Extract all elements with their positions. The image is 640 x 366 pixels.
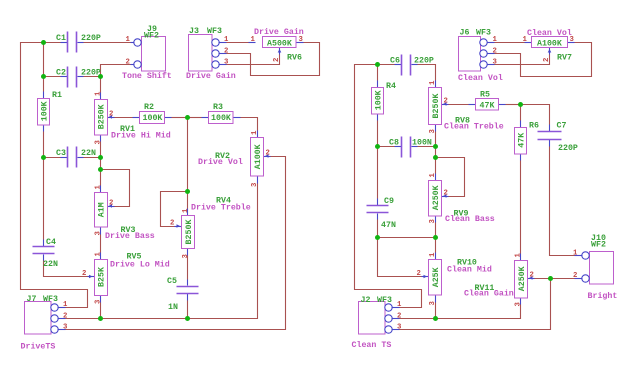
junction C5 bottom on rail	[185, 316, 190, 321]
junction C8 right node	[433, 144, 438, 149]
svg-text:2: 2	[543, 58, 551, 62]
connector J7 WF3 DriveTS	[25, 295, 69, 334]
wire R3 right to RV2 pin1	[241, 118, 258, 131]
svg-text:A100K: A100K	[537, 40, 562, 49]
capacitor C7 220P	[538, 122, 578, 154]
wire center node down to RV4 node	[187, 118, 189, 192]
svg-text:Drive Vol: Drive Vol	[198, 157, 243, 167]
svg-text:1: 1	[429, 252, 437, 257]
svg-text:C5: C5	[167, 277, 177, 286]
wire input rail right from C6 row down to J2 pin1 hook	[355, 65, 422, 308]
junction C6 left node	[375, 62, 380, 67]
svg-text:R6: R6	[529, 122, 539, 131]
wire RV3 wiper loop	[101, 170, 130, 207]
svg-text:1N: 1N	[168, 303, 178, 312]
svg-text:3: 3	[493, 59, 498, 67]
wire C3 node to RV3 node	[100, 158, 102, 170]
resistor R4 100K	[372, 81, 396, 121]
capacitor C3 22N	[56, 147, 96, 168]
resistor R6 47K	[515, 121, 539, 161]
wire RV3 node to RV3 pin1	[100, 170, 102, 186]
svg-text:WF3: WF3	[207, 27, 222, 36]
svg-text:1: 1	[515, 253, 523, 258]
svg-text:100K: 100K	[41, 101, 50, 121]
svg-text:1: 1	[251, 36, 256, 44]
svg-text:3: 3	[95, 231, 103, 236]
capacitor C2 220P	[56, 67, 101, 88]
svg-text:2: 2	[417, 270, 421, 278]
svg-text:B250K: B250K	[185, 220, 194, 245]
svg-text:100K: 100K	[375, 90, 384, 110]
svg-text:A250K: A250K	[432, 185, 441, 210]
svg-text:WF2: WF2	[591, 241, 606, 250]
wire C6 left lead	[378, 64, 395, 66]
svg-text:2: 2	[126, 59, 130, 67]
wire R5 right to R6 node	[506, 104, 521, 106]
junction C3 row at rail	[41, 155, 46, 160]
svg-text:C1: C1	[56, 34, 66, 43]
wire mid rail C9 to RV10	[378, 237, 436, 239]
svg-text:1: 1	[224, 36, 229, 44]
resistor R3 100K	[202, 103, 241, 124]
svg-text:R5: R5	[480, 91, 490, 100]
svg-text:3: 3	[95, 140, 103, 145]
svg-text:2: 2	[397, 312, 401, 320]
svg-text:1: 1	[493, 36, 498, 44]
svg-text:2: 2	[266, 150, 270, 158]
svg-text:3: 3	[299, 36, 304, 44]
wire input rail left from C1 row down to J7 pin1 hook	[21, 43, 88, 308]
svg-text:R2: R2	[144, 103, 154, 112]
connector J2 WF3 Clean TS	[359, 296, 403, 334]
potentiometer RV3 A1M Drive Bass	[95, 185, 136, 236]
svg-text:220P: 220P	[558, 144, 578, 153]
capacitor C1 220P	[56, 32, 101, 53]
wire J7 pin3 to RV2 pin2	[66, 157, 286, 330]
svg-text:3: 3	[397, 324, 402, 332]
svg-text:WF3: WF3	[377, 296, 392, 305]
svg-text:1: 1	[397, 301, 402, 309]
wire center node to R3 left	[188, 117, 202, 119]
svg-text:WF2: WF2	[144, 32, 159, 41]
svg-text:C6: C6	[390, 57, 400, 66]
svg-text:2: 2	[170, 220, 174, 228]
wire node to RV1 pin1	[100, 77, 102, 93]
svg-text:A500K: A500K	[267, 40, 292, 49]
svg-text:C9: C9	[384, 197, 394, 206]
junction RV3 top node	[98, 167, 103, 172]
svg-text:2: 2	[530, 272, 534, 280]
wire mid node to RV10 pin1	[435, 238, 437, 253]
wire C2 left lead	[44, 76, 61, 78]
wire J3 pin1 to RV6 pin1	[227, 42, 249, 44]
wire R6 node down to R6 top	[520, 105, 522, 121]
wire C9 bottom to mid node	[377, 220, 379, 238]
svg-text:Clean Vol: Clean Vol	[527, 28, 572, 38]
junction RV4 top node	[185, 189, 190, 194]
svg-text:RV7: RV7	[557, 54, 572, 63]
wire C3 dot down to C4 top	[43, 158, 45, 240]
wire RV3 pin3 to RV5 pin1	[100, 235, 102, 253]
junction C9 bottom node	[375, 235, 380, 240]
potentiometer RV4 B250K Drive Treble	[170, 197, 231, 259]
svg-text:1: 1	[429, 80, 437, 85]
svg-text:B25K: B25K	[97, 267, 106, 287]
svg-text:C4: C4	[46, 238, 56, 247]
capacitor C9 47N	[367, 197, 396, 230]
svg-text:Drive Lo Mid: Drive Lo Mid	[110, 260, 170, 270]
svg-text:C2: C2	[56, 69, 66, 78]
svg-text:3: 3	[224, 59, 229, 67]
svg-text:J2: J2	[361, 296, 371, 305]
svg-text:1: 1	[126, 36, 131, 44]
wire RV1 pin2 to R2	[115, 117, 133, 119]
wire RV4 wiper loop	[161, 192, 188, 227]
svg-text:100K: 100K	[211, 114, 231, 123]
svg-text:Drive Treble: Drive Treble	[191, 203, 251, 213]
wire RV5 pin3 to bottom rail	[100, 303, 102, 319]
wire J3 pin2 to RV6 pin3 loop	[227, 43, 320, 76]
wire C1 right lead to J9 pin1	[84, 42, 131, 44]
wire R6 bottom to RV11 pin1	[520, 161, 522, 254]
connector J10 WF2 Bright	[573, 234, 614, 284]
junction RV10 top node	[433, 235, 438, 240]
potentiometer RV9 A250K Clean Bass	[429, 173, 469, 224]
wire RV9 node to RV9 pin1	[435, 158, 437, 174]
resistor R5 47K	[469, 91, 506, 111]
wire C1 left lead	[44, 42, 61, 44]
junction RV5 pin3 on rail	[98, 316, 103, 321]
junction bright node	[548, 276, 553, 281]
svg-text:220P: 220P	[81, 34, 101, 43]
junction C8 left node	[375, 144, 380, 149]
wire mid node down to RV10 pin2	[378, 238, 422, 277]
svg-text:3: 3	[251, 182, 259, 187]
svg-text:1: 1	[95, 91, 103, 96]
svg-text:WF3: WF3	[43, 295, 58, 304]
svg-text:2: 2	[493, 47, 497, 55]
wire C8 node to RV9 node	[435, 147, 437, 158]
capacitor C6 220P	[390, 55, 434, 76]
svg-text:1: 1	[63, 301, 68, 309]
svg-text:100N: 100N	[412, 139, 432, 148]
wire C3 left lead	[44, 157, 61, 159]
wire C8 left lead	[378, 146, 395, 148]
svg-text:3: 3	[429, 301, 437, 306]
capacitor C8 100N	[389, 137, 432, 158]
svg-text:A250K: A250K	[518, 266, 527, 291]
svg-text:A100K: A100K	[254, 144, 263, 169]
potentiometer RV6 A500K Drive Gain	[249, 36, 304, 63]
wire RV9 wiper loop	[436, 158, 465, 197]
svg-text:Clean Bass: Clean Bass	[445, 214, 495, 224]
svg-text:22N: 22N	[43, 260, 58, 269]
potentiometer RV5 B25K Drive Lo Mid	[82, 252, 141, 305]
wire C8 right lead	[418, 146, 436, 148]
connector J9 WF2 Tone Shift	[126, 25, 166, 71]
svg-text:2: 2	[109, 111, 113, 119]
svg-text:B250K: B250K	[432, 94, 441, 119]
svg-text:Drive Gain: Drive Gain	[186, 71, 236, 81]
svg-text:Tone Shift: Tone Shift	[122, 71, 172, 81]
junction RV10 pin3 on rail	[433, 316, 438, 321]
svg-text:1: 1	[573, 250, 578, 258]
svg-text:2: 2	[109, 200, 113, 208]
svg-text:R4: R4	[386, 82, 396, 91]
junction C1 row at rail	[41, 40, 46, 45]
wire column A C1 to C2	[43, 43, 45, 77]
junction R2 R3 node	[185, 115, 190, 120]
svg-text:B250K: B250K	[97, 104, 106, 129]
wire C6 right lead to RV8 pin1	[418, 65, 436, 81]
resistor R2 100K	[133, 103, 172, 124]
svg-text:3: 3	[63, 324, 68, 332]
wire RV8 pin3 to C8 node	[435, 132, 437, 147]
svg-text:2: 2	[224, 47, 228, 55]
svg-text:Drive Bass: Drive Bass	[105, 231, 155, 241]
wire R4 bottom to C8 node	[377, 121, 379, 147]
svg-text:1: 1	[95, 252, 103, 257]
svg-text:2: 2	[444, 190, 448, 198]
svg-text:A25K: A25K	[432, 267, 441, 287]
wire C8 node down to C9 top	[377, 147, 379, 199]
svg-text:R1: R1	[52, 91, 62, 100]
svg-text:2: 2	[82, 270, 86, 278]
svg-text:1: 1	[251, 130, 259, 135]
wire C3 right lead	[84, 157, 101, 159]
svg-text:47N: 47N	[381, 221, 396, 230]
wire RV4 pin3 to C5 top	[187, 256, 189, 280]
svg-text:22N: 22N	[81, 149, 96, 158]
svg-text:R3: R3	[213, 103, 223, 112]
svg-text:2: 2	[573, 272, 577, 280]
svg-text:J7: J7	[27, 295, 37, 304]
svg-text:220P: 220P	[414, 57, 434, 66]
potentiometer RV7 A100K Clean Vol	[523, 36, 575, 63]
wire R2 right to center node	[172, 117, 188, 119]
svg-text:2: 2	[273, 58, 281, 62]
svg-text:Bright: Bright	[588, 291, 618, 301]
capacitor C5 1N	[167, 277, 199, 312]
svg-text:Drive Hi Mid: Drive Hi Mid	[111, 131, 171, 141]
svg-text:3: 3	[95, 299, 103, 304]
svg-text:47K: 47K	[518, 133, 527, 148]
svg-text:100K: 100K	[143, 114, 163, 123]
potentiometer RV8 B250K Clean Treble	[429, 80, 470, 134]
svg-text:C7: C7	[557, 122, 567, 131]
svg-text:1: 1	[429, 173, 437, 178]
svg-text:Clean Mid: Clean Mid	[447, 265, 492, 275]
svg-text:3: 3	[429, 129, 437, 134]
svg-text:WF3: WF3	[476, 29, 491, 38]
wire R1 bottom to C3 dot	[43, 132, 45, 158]
wire RV4 node to RV4 pin1	[187, 192, 189, 209]
svg-text:1: 1	[95, 185, 103, 190]
potentiometer RV11 A250K Clean Gain	[475, 253, 535, 307]
wire J3 pin3 to RV6 wiper	[227, 55, 280, 65]
svg-text:220P: 220P	[81, 69, 101, 78]
connector J6 WF3 Clean Vol	[459, 29, 498, 72]
svg-text:Clean TS: Clean TS	[352, 340, 392, 350]
svg-text:47K: 47K	[480, 102, 495, 111]
svg-text:Drive Gain: Drive Gain	[254, 27, 304, 37]
svg-text:Clean Vol: Clean Vol	[458, 73, 503, 83]
junction C2 right node	[98, 74, 103, 79]
wire C6 node down to R4 top	[377, 65, 379, 81]
potentiometer RV10 A25K Clean Mid	[417, 252, 477, 306]
svg-text:DriveTS: DriveTS	[21, 342, 56, 352]
wire RV11 pin2 to J10 pin2	[535, 278, 575, 280]
capacitor C4 22N	[33, 238, 58, 269]
wire C2 right lead to node	[84, 76, 101, 78]
potentiometer RV2 A100K Drive Vol	[215, 130, 271, 187]
wire bottom rail J7 pin2 to RV2 pin3	[66, 184, 258, 319]
svg-text:Clean Treble: Clean Treble	[444, 122, 504, 132]
junction C3 right node	[98, 155, 103, 160]
junction C2 row at rail	[41, 74, 46, 79]
wire J6 pin3 to RV7 wiper	[495, 55, 550, 65]
svg-text:3: 3	[515, 302, 523, 307]
svg-text:A1M: A1M	[97, 202, 106, 217]
wire C7 bottom to J10 pin1	[550, 147, 575, 256]
svg-text:3: 3	[429, 219, 437, 224]
svg-text:C3: C3	[56, 149, 66, 158]
wire J6 pin1 to RV7 pin1	[495, 42, 525, 44]
junction RV9 top node	[433, 155, 438, 160]
junction R5 R6 node	[518, 102, 523, 107]
svg-text:Clean Gain: Clean Gain	[464, 289, 514, 299]
connector J3 WF3 Drive Gain	[189, 27, 230, 71]
wire J2 pin3 to bright node	[400, 279, 551, 330]
wire C4 bottom to RV5 pin2	[44, 261, 88, 277]
resistor R1 100K	[38, 91, 62, 132]
wire node up to J9 pin2	[101, 65, 131, 77]
svg-text:3: 3	[182, 254, 190, 259]
wire RV10 pin3 to bottom rail	[435, 303, 437, 319]
wire C5 bottom to rail	[187, 301, 189, 319]
svg-text:C8: C8	[389, 139, 399, 148]
svg-text:2: 2	[444, 98, 448, 106]
wire J6 pin2 to RV7 pin3 loop	[495, 43, 592, 77]
svg-text:J6: J6	[460, 29, 470, 38]
wire RV1 pin3 to C3 node	[100, 142, 102, 158]
wire R6 node to C7 top	[521, 105, 550, 125]
wire bottom rail J2 pin2 to RV11 pin3	[400, 305, 521, 319]
svg-text:1: 1	[182, 208, 190, 213]
svg-text:2: 2	[63, 312, 67, 320]
potentiometer RV1 B250K Drive Hi Mid	[95, 91, 135, 145]
wire RV9 pin3 to mid node	[435, 223, 437, 238]
wire RV8 pin2 to R5	[449, 104, 469, 106]
wire C2 dot down to R1 top	[43, 77, 45, 92]
svg-text:RV6: RV6	[287, 54, 302, 63]
svg-text:J3: J3	[189, 27, 199, 36]
